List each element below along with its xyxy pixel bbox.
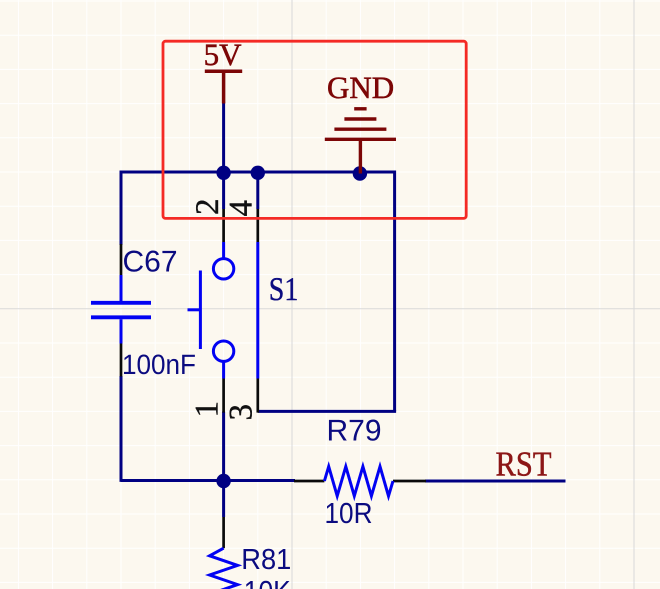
- resistor R81: [210, 517, 238, 589]
- svg-text:100nF: 100nF: [122, 349, 196, 380]
- label R79: [327, 415, 382, 448]
- wire left lower: [120, 376, 123, 482]
- label C67: [123, 246, 178, 279]
- wire 5V stem: [222, 103, 225, 173]
- wire pin4 stub: [256, 172, 259, 209]
- wire right vertical: [393, 171, 396, 412]
- pin number 1: [190, 401, 226, 418]
- power port 5V: [205, 71, 242, 103]
- pin number 2: [190, 199, 226, 216]
- pin number 4: [224, 200, 260, 217]
- svg-text:R79: R79: [327, 415, 382, 448]
- wire bottom left: [121, 479, 295, 482]
- wire RST net: [425, 480, 566, 483]
- svg-text:R81: R81: [241, 544, 291, 576]
- svg-text:10R: 10R: [325, 498, 373, 530]
- ground symbol GND: [325, 109, 396, 174]
- label 10R: [325, 498, 373, 530]
- svg-text:2: 2: [190, 199, 226, 216]
- junction dot at pin4: [251, 166, 265, 180]
- net label RST: [496, 445, 552, 484]
- wire pin1 lower: [222, 412, 225, 481]
- svg-text:RST: RST: [496, 445, 552, 484]
- capacitor C67: [91, 244, 151, 377]
- label 10K: [244, 576, 292, 589]
- selection highlight box: [163, 41, 466, 218]
- wire R81 stub: [222, 481, 225, 518]
- wire pin2 stub: [222, 172, 225, 209]
- pin number 3: [224, 404, 260, 421]
- svg-text:10K: 10K: [244, 576, 292, 589]
- junction dot at 5V/pin2: [216, 166, 230, 180]
- label S1: [269, 272, 299, 308]
- label 5V: [204, 37, 243, 72]
- svg-text:S1: S1: [269, 272, 299, 308]
- svg-text:3: 3: [224, 404, 260, 421]
- label 100nF: [122, 349, 196, 380]
- label GND: [327, 70, 394, 105]
- wire top bus: [121, 171, 395, 174]
- label R81: [241, 544, 291, 576]
- wire switch bottom: [258, 410, 396, 413]
- svg-text:C67: C67: [123, 246, 178, 279]
- resistor R79: [294, 467, 426, 497]
- wire left upper: [120, 171, 123, 246]
- pushbutton S1: [188, 209, 258, 413]
- svg-text:1: 1: [190, 401, 226, 418]
- junction dot at GND: [353, 166, 367, 180]
- svg-text:GND: GND: [327, 70, 394, 105]
- junction dot bottom node: [216, 474, 230, 488]
- svg-text:4: 4: [224, 200, 260, 217]
